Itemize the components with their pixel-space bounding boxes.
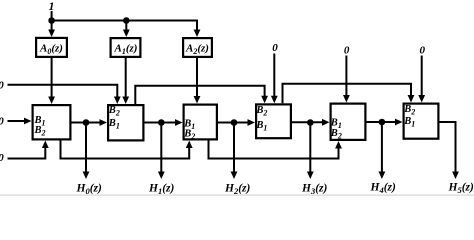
allpass block A2 <box>183 38 212 57</box>
svg-text:0: 0 <box>344 45 350 57</box>
arrow into box1 left <box>24 118 32 125</box>
wire A0 input drop <box>51 21 53 33</box>
arrow H4 tip <box>379 172 386 180</box>
wire H2 output <box>233 123 235 175</box>
allpass block A0 <box>36 38 67 57</box>
svg-text:A2(z): A2(z) <box>185 43 209 57</box>
wire top distribution line <box>52 21 197 33</box>
svg-text:H0(z): H0(z) <box>76 183 103 197</box>
wire box1 to box2 link <box>72 122 103 124</box>
wire box4 to box5 link <box>292 121 325 123</box>
svg-text:0: 0 <box>0 80 4 92</box>
arrow into box4 top from zero drop <box>271 96 278 104</box>
svg-text:A0(z): A0(z) <box>39 43 63 57</box>
wire H0 output <box>85 123 87 175</box>
svg-text:1: 1 <box>49 0 55 13</box>
wire H1 output <box>160 123 162 175</box>
arrow into box6 left <box>395 119 403 126</box>
arrow into box6 top from box4 bus <box>408 95 415 103</box>
wire A2 output to box3 top <box>196 58 198 99</box>
arrow into box2 top from zero-1 <box>114 97 121 105</box>
wire top zero-3 drop to box6 top <box>421 56 423 98</box>
wire box3 to box4 link <box>218 122 251 124</box>
wire input-1 stem <box>51 11 53 21</box>
node junction H3 tap <box>307 119 314 126</box>
wire top zero-1 drop to box4 top <box>273 54 275 99</box>
arrow H5 tip <box>452 172 459 180</box>
arrow up into box5 bottom <box>335 141 342 149</box>
arrow up into box1 bottom <box>42 141 49 149</box>
arrow into A2 top <box>194 30 201 38</box>
scan artifact bottom band <box>0 194 474 196</box>
svg-text:H2(z): H2(z) <box>224 183 251 197</box>
svg-text:0: 0 <box>272 42 278 54</box>
wire box3 bottom output bus to box5 bottom <box>209 141 339 159</box>
arrow into box2 top from A1 <box>122 97 129 105</box>
wire box2 to box3 link <box>145 122 179 124</box>
arrow into box5 left <box>322 119 330 126</box>
wire H3 output <box>309 123 311 175</box>
arrow into box4 top from box2 bus <box>261 96 268 104</box>
arrow into box5 top from zero drop <box>343 95 350 103</box>
wire A1 input drop <box>125 21 127 33</box>
arrow up into box3 bottom <box>186 141 193 149</box>
wire box6 right output to H5 <box>440 122 456 174</box>
wire left zero-1 line to box2 top <box>8 85 118 99</box>
svg-text:0: 0 <box>0 116 4 128</box>
arrow into A1 top <box>123 30 130 38</box>
wire left zero-3 line to box1 bottom <box>8 146 46 159</box>
node junction H2 tap <box>231 119 238 126</box>
butterfly box5 <box>331 104 366 140</box>
allpass block A1 <box>111 38 141 57</box>
arrow H3 tip <box>307 172 314 180</box>
svg-text:0: 0 <box>420 45 426 57</box>
arrow into box6 top from zero drop <box>418 95 425 103</box>
butterfly box2 <box>108 105 143 140</box>
wire A0 output to box1 top <box>51 58 53 99</box>
butterfly box1 <box>33 105 71 139</box>
butterfly box4 <box>256 104 291 138</box>
wire H4 output <box>381 122 383 174</box>
wire A1 output to box2 top <box>125 58 127 99</box>
svg-text:H4(z): H4(z) <box>370 182 397 196</box>
wire box2 top output bus to box4 top <box>135 86 264 104</box>
arrow into A0 top <box>48 30 55 38</box>
wire top zero-2 drop to box5 top <box>345 56 347 98</box>
svg-text:H3(z): H3(z) <box>301 183 328 197</box>
arrow into box2 left <box>100 119 108 126</box>
arrow into box3 top from A2 <box>194 96 201 104</box>
arrow into box3 left <box>175 119 183 126</box>
arrow into box4 left <box>248 119 256 126</box>
arrow H1 tip <box>158 172 165 180</box>
wire box1 bottom output bus to box3 bottom <box>61 141 190 159</box>
wire box5 to box6 link <box>367 121 399 123</box>
node junction top at A1 <box>123 17 130 24</box>
svg-text:H1(z): H1(z) <box>148 183 175 197</box>
svg-text:H5(z): H5(z) <box>448 182 474 196</box>
wire box4 top output bus to box6 top <box>283 84 412 104</box>
node junction top at A0 <box>48 17 55 24</box>
wire left zero-2 arrow to box1 left <box>8 120 28 122</box>
butterfly box6 <box>404 104 439 139</box>
arrow into box1 top <box>48 97 55 105</box>
node junction H0 tap <box>83 119 90 126</box>
arrow H2 tip <box>231 172 238 180</box>
arrow H0 tip <box>83 172 90 180</box>
butterfly box3 <box>184 105 217 140</box>
node junction H4 tap <box>379 119 386 126</box>
svg-text:A1(z): A1(z) <box>114 43 138 57</box>
svg-text:0: 0 <box>0 152 4 164</box>
node junction H1 tap <box>158 119 165 126</box>
